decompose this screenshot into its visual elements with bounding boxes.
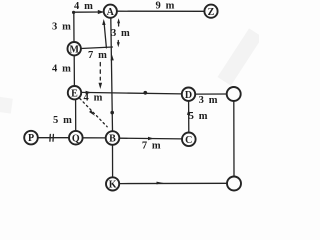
wire corner-M (3 m left) bbox=[73, 12, 75, 42]
svg-text:P: P bbox=[28, 133, 34, 144]
node B bbox=[106, 131, 120, 145]
dim arrow up 3 m bbox=[118, 23, 120, 27]
node M bbox=[68, 42, 81, 55]
svg-text:D: D bbox=[185, 90, 192, 101]
node Q bbox=[69, 131, 83, 145]
dashed wire 7 m down bbox=[99, 63, 101, 81]
arrowhead corner-A bbox=[98, 10, 104, 14]
svg-text:3 m: 3 m bbox=[111, 28, 131, 39]
node TR unlabeled bbox=[227, 87, 241, 101]
svg-text:C: C bbox=[185, 135, 192, 146]
svg-text:Z: Z bbox=[208, 7, 215, 18]
node P bbox=[24, 131, 38, 145]
svg-text:Q: Q bbox=[72, 133, 80, 144]
wire corner-A (4 m top) bbox=[74, 11, 103, 13]
arrowhead down on A-B mid bbox=[110, 111, 114, 115]
node BR unlabeled bbox=[227, 177, 241, 191]
wire A-Z (9 m) bbox=[117, 10, 204, 12]
wire B-C (7 m) bbox=[120, 137, 182, 140]
wire C-D (5 m) bbox=[188, 101, 190, 132]
arrowhead right after E bbox=[86, 91, 92, 95]
wire Q-B bbox=[83, 137, 106, 139]
svg-text:5 m: 5 m bbox=[53, 115, 73, 126]
wire M-E (4 m left) bbox=[73, 56, 75, 87]
svg-text:7 m: 7 m bbox=[88, 50, 108, 61]
svg-text:K: K bbox=[109, 180, 117, 191]
wire A-B long vertical bbox=[111, 18, 113, 131]
wire P-Q with ticks bbox=[38, 137, 69, 139]
node K bbox=[106, 177, 119, 190]
node C bbox=[182, 133, 196, 147]
arrowhead up on A-B at 7m bbox=[111, 55, 114, 60]
svg-text:3 m: 3 m bbox=[52, 22, 72, 33]
svg-text:M: M bbox=[69, 44, 79, 55]
svg-text:7 m: 7 m bbox=[142, 141, 162, 152]
arrowhead mid B-C bbox=[148, 137, 154, 141]
svg-text:4 m: 4 m bbox=[84, 92, 104, 103]
node Z bbox=[204, 5, 217, 18]
scan streak bbox=[217, 28, 262, 85]
dashed wire E-B diagonal bbox=[80, 99, 107, 127]
dim arrow down 3 m bbox=[117, 41, 119, 44]
node E bbox=[68, 86, 81, 99]
svg-text:B: B bbox=[109, 134, 116, 145]
node D bbox=[182, 88, 195, 101]
wire E-D (row) bbox=[81, 92, 181, 94]
wire vertical x107 with up arrow bbox=[104, 24, 106, 48]
svg-text:3 m: 3 m bbox=[199, 95, 219, 106]
svg-text:4 m: 4 m bbox=[52, 63, 72, 74]
svg-text:4 m: 4 m bbox=[74, 1, 94, 12]
wire D-TR (3 m) bbox=[195, 93, 226, 95]
node corner dot bbox=[72, 11, 75, 14]
arrowhead on E-B diagonal bbox=[89, 110, 95, 116]
arrowhead up on C-D bbox=[187, 110, 190, 115]
svg-text:9 m: 9 m bbox=[156, 1, 176, 12]
wire TR-BR bbox=[233, 101, 235, 176]
svg-text:A: A bbox=[107, 7, 115, 18]
svg-text:E: E bbox=[71, 88, 78, 99]
wire B-K bbox=[112, 145, 114, 177]
arrowhead mid E-D bbox=[143, 91, 147, 95]
arrowhead mid K-BR bbox=[157, 182, 164, 185]
wire E-Q (5 m) bbox=[75, 100, 77, 131]
node A bbox=[104, 5, 117, 18]
svg-text:5 m: 5 m bbox=[189, 111, 209, 122]
wire K-BR bbox=[120, 182, 227, 184]
wire M-right horizontal bbox=[81, 47, 112, 49]
